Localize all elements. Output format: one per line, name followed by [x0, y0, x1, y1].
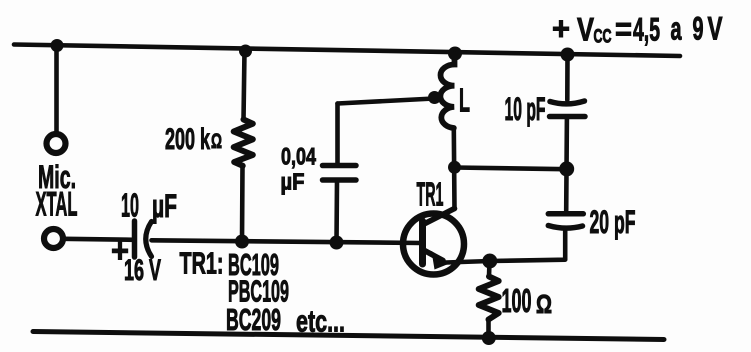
wire: C2 to coil tap — [338, 99, 435, 104]
inductor L (coil) — [440, 54, 454, 128]
svg-text:Ω: Ω — [536, 289, 552, 319]
resistor R1 200 kOhm (zigzag) — [234, 120, 253, 166]
capacitor C4 20pF bottom plate — [548, 226, 582, 229]
junction: C2 on node B — [330, 236, 344, 250]
wire: ground bottom rail — [33, 332, 664, 340]
svg-text:10: 10 — [121, 187, 139, 224]
transistor TR1 emitter arrow — [432, 251, 450, 270]
transistor TR1 collector lead — [424, 209, 455, 225]
wire: R1 bottom to node B — [240, 166, 245, 242]
capacitor C4 20pF top plate — [548, 211, 583, 217]
svg-text:10 pF: 10 pF — [505, 91, 546, 127]
wire: emitter node to R2 top — [487, 261, 492, 277]
wire: node B to C2 bottom plate — [334, 181, 339, 243]
junction: R2 on ground rail — [482, 331, 496, 345]
wire: C3 bottom to divider node to C4 top — [564, 119, 569, 211]
junction: tap on coil L — [428, 91, 441, 104]
transistor TR1 base bar — [419, 221, 426, 264]
svg-text:V: V — [708, 11, 723, 47]
capacitor C2 0,04uF top plate — [323, 163, 357, 169]
svg-text:XTAL: XTAL — [36, 186, 78, 224]
svg-text:TR1:: TR1: — [180, 245, 224, 280]
resistor R2 100 Ohm (zigzag) — [479, 277, 499, 320]
wire: Vcc rail to R1 top — [244, 51, 245, 120]
capacitor C2 0,04uF bottom plate — [323, 177, 357, 183]
junction: R1 on Vcc rail — [239, 45, 252, 58]
wire: mic to C1 left plate — [63, 239, 134, 240]
wire: +Vcc top supply rail — [14, 45, 680, 57]
junction: C3 branch on Vcc rail — [561, 48, 575, 62]
wire: coil bottom to collector — [451, 128, 456, 209]
svg-text:100: 100 — [502, 282, 532, 319]
svg-text:Ω: Ω — [211, 130, 222, 153]
svg-text:20 pF: 20 pF — [590, 204, 636, 240]
svg-text:CC: CC — [594, 27, 612, 48]
wire: C2 top plate up — [335, 104, 340, 165]
svg-text:9: 9 — [693, 11, 704, 47]
junction: emitter node (R2/C4) — [482, 254, 497, 269]
svg-text:etc...: etc... — [296, 304, 345, 339]
svg-text:BC209: BC209 — [226, 302, 281, 337]
svg-text:V: V — [577, 12, 595, 48]
wire: C1 to transistor base (node B) — [152, 240, 422, 243]
capacitor C3 10pF bottom plate — [550, 114, 586, 120]
wire: Vcc rail to C3 top plate — [565, 55, 570, 100]
svg-text:L: L — [459, 82, 470, 119]
wire: collector node to capacitor divider node — [455, 168, 567, 170]
junction: coil L on Vcc rail — [448, 47, 462, 61]
svg-text:=: = — [615, 11, 632, 47]
terminal: crystal mic top (open circle) — [47, 134, 66, 153]
wire: R2 bottom to ground rail — [486, 320, 491, 337]
capacitor C3 10pF top plate — [550, 101, 585, 104]
svg-text:0,04: 0,04 — [281, 144, 316, 171]
capacitor C1 10uF right (curved) plate — [146, 222, 152, 257]
junction: collector node on coil wire — [448, 161, 461, 174]
svg-text:µF: µF — [152, 188, 177, 224]
junction: mic branch on Vcc rail — [51, 39, 64, 52]
svg-text:+: + — [552, 11, 570, 47]
transistor TR1 circle — [403, 214, 464, 275]
svg-text:16 V: 16 V — [124, 254, 161, 287]
svg-text:200 k: 200 k — [165, 123, 210, 156]
wire: C4 bottom to emitter node — [446, 231, 565, 263]
svg-text:TR1: TR1 — [417, 176, 444, 213]
capacitor C1 10uF left (straight) plate — [132, 221, 138, 257]
svg-text:4,5: 4,5 — [633, 12, 660, 48]
junction: divider node (C3/C4/collector) — [559, 161, 574, 176]
transistor TR1 emitter lead — [424, 250, 444, 261]
junction: R1 on node B — [235, 235, 249, 249]
wire: mic top terminal to Vcc rail — [54, 46, 59, 132]
svg-text:µF: µF — [281, 169, 305, 195]
terminal: crystal mic bottom (open circle) — [44, 229, 63, 248]
svg-text:a: a — [671, 11, 682, 47]
